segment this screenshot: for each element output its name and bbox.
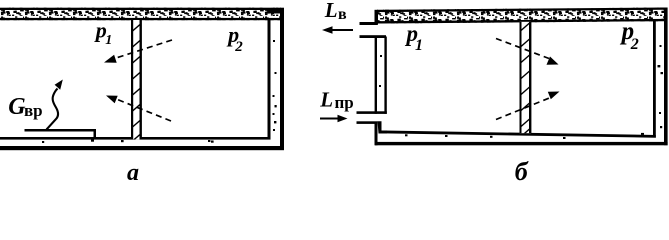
left cap of outer bottom casing of chamber b bbox=[375, 123, 378, 145]
svg-text:1: 1 bbox=[105, 33, 112, 48]
upper inlet upper lip of chamber b bbox=[360, 22, 378, 25]
lower inlet step to bottom line of chamber b bbox=[378, 121, 388, 133]
top wall band (stippled) of chamber b bbox=[375, 8, 665, 25]
top wall band (stippled) of chamber a bbox=[0, 8, 281, 21]
svg-text:2: 2 bbox=[630, 36, 639, 53]
right wall inner line of chamber b bbox=[653, 21, 656, 138]
lower inlet lower lip of chamber b bbox=[357, 121, 378, 124]
svg-text:вр: вр bbox=[24, 101, 43, 120]
bottom outer line of chamber a bbox=[0, 146, 284, 150]
bottom stipple ticks of chamber b bbox=[405, 133, 644, 139]
svg-text:в: в bbox=[338, 6, 347, 23]
svg-text:б: б bbox=[515, 157, 529, 183]
porous partition of chamber b bbox=[517, 20, 533, 140]
svg-text:L: L bbox=[319, 88, 333, 112]
svg-text:пр: пр bbox=[335, 93, 354, 112]
outflow arrow L_v (pointing left) bbox=[322, 26, 353, 33]
right wall stipple dots of chamber b bbox=[658, 45, 664, 128]
svg-text:2: 2 bbox=[234, 39, 243, 55]
svg-text:1: 1 bbox=[415, 37, 423, 54]
bottom inner line of chamber b bbox=[384, 131, 656, 138]
right wall outer line of chamber a bbox=[280, 8, 284, 150]
bottom stipple ticks of chamber a bbox=[42, 140, 210, 144]
porous partition of chamber a bbox=[129, 20, 144, 144]
wavy evaporation arrow bbox=[47, 80, 63, 130]
right wall stipple dots of chamber a bbox=[211, 40, 277, 143]
dashed flow arrow upper (chamber b) bbox=[496, 39, 559, 65]
svg-text:L: L bbox=[324, 0, 338, 22]
dashed flow arrow 2 (lower, chamber a) bbox=[106, 96, 171, 122]
svg-text:а: а bbox=[127, 160, 139, 183]
right wall outer line of chamber b bbox=[664, 8, 668, 146]
lower inlet upper lip of chamber b bbox=[357, 111, 387, 114]
bottom inner line of chamber a bbox=[0, 137, 271, 140]
bottom outer line of chamber b bbox=[375, 142, 668, 145]
dashed flow arrow lower (chamber b) bbox=[496, 92, 560, 120]
dashed flow arrow 1 (upper, chamber a) bbox=[104, 40, 172, 63]
right wall corner fill of chamber a bbox=[268, 8, 280, 14]
left inner wall (double line) of chamber b bbox=[375, 37, 387, 114]
upper inlet lower lip of chamber b bbox=[360, 35, 387, 38]
right wall inner line of chamber a bbox=[268, 20, 271, 140]
injection plate (shelf) of chamber a bbox=[25, 129, 97, 138]
inflow arrow L_pr (pointing right) bbox=[320, 115, 348, 122]
